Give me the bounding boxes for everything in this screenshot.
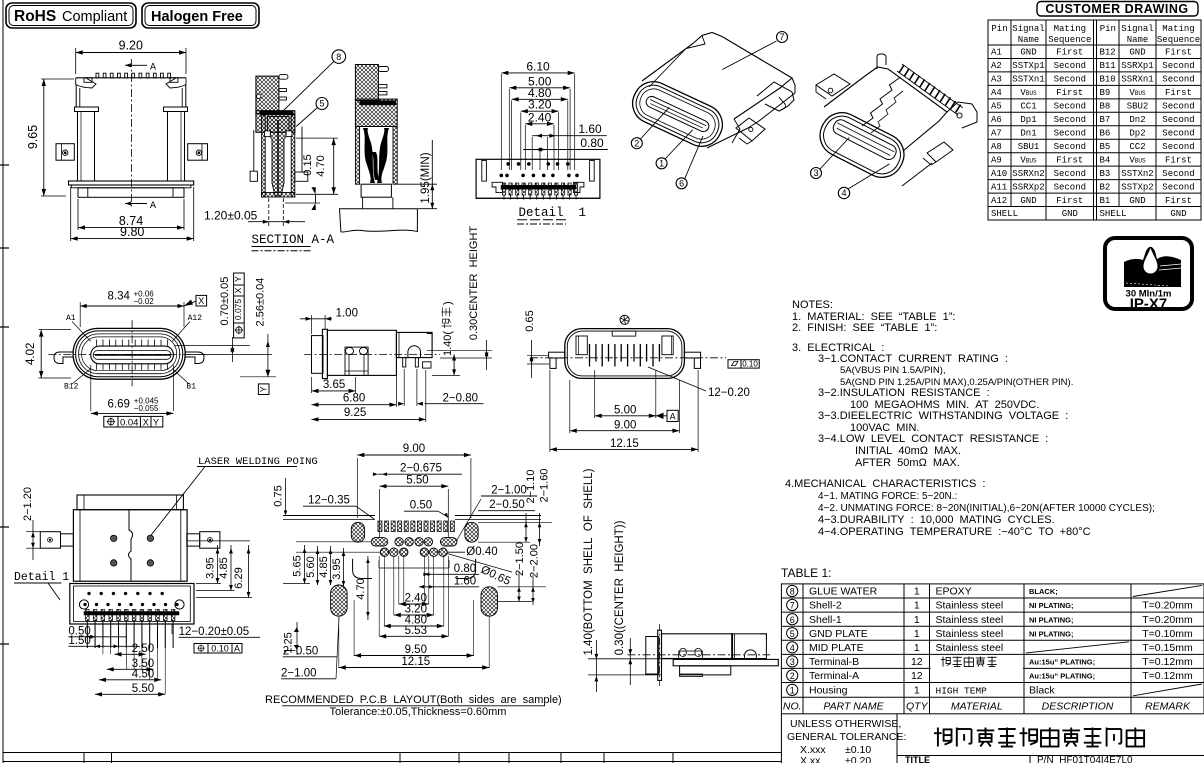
- svg-text:A6: A6: [991, 115, 1002, 125]
- svg-text:2−0.80: 2−0.80: [443, 393, 479, 405]
- svg-text:NI PLATING;: NI PLATING;: [1029, 601, 1073, 610]
- svg-text:4.50: 4.50: [132, 668, 154, 680]
- svg-text:4.02: 4.02: [25, 343, 37, 365]
- iso view 2: top tab: [877, 54, 886, 69]
- svg-text:2−1.00: 2−1.00: [491, 484, 527, 496]
- svg-text:SSRXp2: SSRXp2: [1012, 182, 1044, 192]
- iso view 1: solder lug: [736, 118, 765, 141]
- TABLE 1 parts list: [781, 566, 1204, 714]
- svg-text:5: 5: [319, 99, 324, 109]
- sheet left border line: [2, 0, 4, 763]
- svg-text:A4: A4: [991, 88, 1002, 98]
- svg-text:12: 12: [911, 656, 923, 668]
- svg-text:SSRXn2: SSRXn2: [1012, 169, 1044, 179]
- iso view 2: right rear latch: [947, 102, 977, 128]
- IP-X7 badge frame: [1105, 238, 1192, 309]
- svg-text:1.40(BOTTOM SHELL OF SHELL): 1.40(BOTTOM SHELL OF SHELL): [583, 468, 595, 655]
- svg-text:0.70±0.05: 0.70±0.05: [219, 277, 231, 326]
- mounted view: flange vertical center line: [659, 624, 661, 686]
- svg-text:2−1.50: 2−1.50: [514, 542, 526, 576]
- bottom view: detail end circles: [79, 600, 88, 609]
- section A-A: right mid block: [355, 99, 397, 126]
- svg-text:2−2.00: 2−2.00: [529, 544, 541, 578]
- svg-text:2: 2: [634, 138, 639, 148]
- sheet bottom border line: [3, 752, 781, 754]
- svg-text:3.95: 3.95: [205, 557, 217, 578]
- svg-text:Terminal-B: Terminal-B: [809, 656, 859, 668]
- svg-text:RoHS: RoHS: [14, 8, 56, 25]
- front view: dim 9.20: [76, 52, 186, 54]
- front view: left lug: [56, 144, 74, 161]
- svg-text:12.15: 12.15: [401, 656, 430, 668]
- svg-text:MID PLATE: MID PLATE: [809, 642, 864, 654]
- svg-text:A: A: [150, 201, 156, 212]
- svg-text:9.25: 9.25: [344, 407, 366, 419]
- svg-text:3−4.LOW LEVEL CONTACT RESIS: 3−4.LOW LEVEL CONTACT RESISTANCE :: [818, 433, 1048, 445]
- svg-text:3.65: 3.65: [323, 379, 345, 391]
- svg-text:−0.02: −0.02: [134, 297, 155, 306]
- svg-text:A10: A10: [991, 169, 1007, 179]
- svg-text:Name: Name: [1127, 35, 1149, 45]
- svg-text:Second: Second: [1162, 182, 1194, 192]
- svg-text:Y: Y: [233, 276, 243, 282]
- svg-text:Second: Second: [1162, 142, 1194, 152]
- detail1: bottom edge: [476, 197, 600, 199]
- svg-text:1: 1: [914, 600, 920, 612]
- svg-text:X: X: [198, 296, 204, 306]
- svg-text:3−3.DIEELECTRIC WITHSTANDING: 3−3.DIEELECTRIC WITHSTANDING VOLTAGE :: [818, 410, 1068, 422]
- bottom view: detail dots row1: [88, 592, 91, 595]
- detail1: contact band and pins: [501, 185, 576, 189]
- svg-text:GND PLATE: GND PLATE: [809, 628, 868, 640]
- mounted view: lower housing below board: [680, 666, 731, 675]
- front view: top corner hooks: [76, 78, 96, 88]
- svg-text:B8: B8: [1100, 102, 1111, 112]
- detail1: upper dots: [507, 162, 510, 165]
- mounted view: board top reference line: [588, 658, 673, 660]
- svg-text:B2: B2: [1100, 182, 1111, 192]
- iso view 2: pins row: [897, 71, 958, 115]
- rear view: datum A flag: [656, 415, 667, 417]
- iso view 1: rear latch with notch: [757, 82, 794, 111]
- svg-text:Second: Second: [1054, 169, 1086, 179]
- svg-text:AFTER 50mΩ MAX.: AFTER 50mΩ MAX.: [855, 457, 960, 469]
- front view: section arrow A bottom: [125, 203, 147, 205]
- balloon 7: [777, 32, 788, 43]
- svg-text:8.34: 8.34: [108, 291, 131, 303]
- svg-text:Second: Second: [1162, 75, 1194, 85]
- svg-text:A2: A2: [991, 61, 1002, 71]
- svg-text:5.65: 5.65: [292, 555, 304, 576]
- svg-text:5.53: 5.53: [405, 625, 427, 637]
- svg-text:B1: B1: [186, 383, 196, 392]
- svg-text:8: 8: [790, 587, 795, 597]
- side view: spring clip detail: [345, 347, 368, 375]
- svg-text:Second: Second: [1162, 115, 1194, 125]
- detail1: end caps: [492, 182, 502, 192]
- company name glyphs: [934, 728, 1144, 747]
- svg-text:B12: B12: [64, 383, 79, 392]
- svg-text:DESCRIPTION: DESCRIPTION: [1042, 700, 1114, 712]
- front view: dim 9.65: [43, 79, 45, 196]
- RoHS Compliant badge: [6, 3, 136, 28]
- svg-text:6: 6: [679, 179, 684, 189]
- svg-text:A3: A3: [991, 75, 1002, 85]
- svg-text:TITLE: TITLE: [905, 755, 930, 763]
- svg-text:4−3.DURABILITY : 10,000 MAT: 4−3.DURABILITY : 10,000 MATING CYCLES.: [818, 514, 1055, 526]
- svg-text:B7: B7: [1100, 115, 1111, 125]
- front view: bottom housing: [78, 188, 184, 198]
- svg-text:P/N HF01T04I4E7L0: P/N HF01T04I4E7L0: [1037, 755, 1133, 763]
- detail1: body outline: [476, 159, 600, 198]
- face view: side hooks: [54, 352, 73, 364]
- svg-text:SBU1: SBU1: [1018, 142, 1040, 152]
- svg-text:0.10: 0.10: [211, 644, 229, 654]
- bottom view: mid seam: [129, 510, 133, 581]
- pin assignment table: [988, 20, 1201, 220]
- svg-text:Stainless steel: Stainless steel: [936, 642, 1004, 654]
- svg-text:Housing: Housing: [809, 685, 848, 697]
- svg-text:GND: GND: [1020, 196, 1036, 206]
- svg-text:First: First: [1056, 196, 1083, 206]
- svg-text:A1: A1: [991, 48, 1002, 58]
- iso view 2: mid plate zigzag seam: [862, 77, 901, 126]
- svg-text:4: 4: [841, 188, 846, 198]
- svg-text:0.30((CENTER HEIGHT)): 0.30((CENTER HEIGHT)): [614, 520, 626, 655]
- svg-text:Stainless steel: Stainless steel: [936, 600, 1004, 612]
- svg-text:1.95(MIN): 1.95(MIN): [420, 152, 432, 203]
- pcb: row3 pads: [380, 548, 388, 556]
- notes text block: [785, 299, 1155, 538]
- svg-text:SECTION A-A: SECTION A-A: [252, 233, 335, 247]
- svg-text:Sequence: Sequence: [1048, 35, 1091, 45]
- face view: datum X flag: [184, 301, 196, 306]
- Halogen Free badge: [142, 3, 259, 28]
- svg-text:1: 1: [914, 685, 920, 697]
- svg-text:MATERIAL: MATERIAL: [951, 700, 1003, 712]
- bottom view: weld dots: [111, 535, 117, 541]
- svg-text:SSTXp1: SSTXp1: [1012, 61, 1044, 71]
- side view: rear legs: [403, 358, 406, 367]
- svg-text:Shell-2: Shell-2: [809, 600, 842, 612]
- svg-text:CC1: CC1: [1020, 102, 1036, 112]
- svg-text:TABLE 1:: TABLE 1:: [781, 566, 831, 580]
- svg-text:NOTES:: NOTES:: [792, 299, 833, 311]
- svg-text:REMARK: REMARK: [1145, 700, 1191, 712]
- svg-text:1.00: 1.00: [336, 308, 358, 320]
- bottom view: contact band and pins: [84, 612, 179, 616]
- rear view: weld symbol: [620, 315, 629, 324]
- svg-text:QTY: QTY: [906, 700, 929, 712]
- balloon 1: [656, 158, 667, 169]
- svg-text:UNLESS OTHERWISE,: UNLESS OTHERWISE,: [790, 718, 901, 730]
- svg-text:Detail 1: Detail 1: [519, 206, 587, 220]
- face view: body stadiums: [73, 328, 185, 379]
- iso view 2: front stadium: [813, 105, 911, 184]
- svg-text:Second: Second: [1162, 102, 1194, 112]
- svg-text:Halogen Free: Halogen Free: [151, 9, 243, 25]
- svg-text:Au:15u” PLATING;: Au:15u” PLATING;: [1029, 658, 1095, 667]
- svg-text:0.80: 0.80: [454, 563, 476, 575]
- section A-A: contact windows: [265, 131, 271, 137]
- rear view: inner blocks: [576, 336, 587, 355]
- svg-text:6.10: 6.10: [526, 59, 550, 73]
- detail1: extension lines: [500, 74, 502, 170]
- side view: front cap: [312, 336, 324, 374]
- svg-text:IP-X7: IP-X7: [1130, 296, 1168, 313]
- svg-text:2−1.60: 2−1.60: [539, 469, 551, 503]
- svg-text:VBUS: VBUS: [1129, 155, 1146, 165]
- svg-text:Stainless steel: Stainless steel: [936, 614, 1004, 626]
- svg-text:8: 8: [336, 52, 341, 62]
- front view: dim 9.80: [71, 238, 194, 240]
- section A-A: left shell walls: [262, 115, 266, 197]
- svg-text:Signal: Signal: [1121, 24, 1153, 34]
- svg-text:2. FINISH: SEE “TABLE 1”:: 2. FINISH: SEE “TABLE 1”:: [792, 322, 937, 334]
- svg-text:0.65: 0.65: [524, 310, 536, 331]
- front view: wall caps: [75, 107, 99, 112]
- revision strip ticks: [3, 753, 781, 763]
- svg-text:2.40: 2.40: [528, 110, 552, 124]
- svg-text:0.50: 0.50: [410, 500, 432, 512]
- svg-text:SSTXn1: SSTXn1: [1012, 75, 1044, 85]
- svg-text:A12: A12: [991, 196, 1007, 206]
- svg-text:Shell-1: Shell-1: [809, 614, 842, 626]
- title block: [781, 714, 1204, 763]
- pcb: shell edge lines: [283, 515, 375, 517]
- pcb: housing outline bottom: [353, 559, 372, 579]
- svg-text:4−1. MATING FORCE: 5~20N.:: 4−1. MATING FORCE: 5~20N.:: [818, 491, 957, 502]
- svg-text:A1: A1: [66, 314, 76, 323]
- svg-text:0.04: 0.04: [120, 417, 139, 428]
- svg-text:Dp1: Dp1: [1020, 115, 1036, 125]
- svg-text:B5: B5: [1100, 142, 1111, 152]
- section A-A: right shoulder leg: [301, 127, 303, 173]
- side view: front flange: [322, 329, 327, 378]
- balloon 2: [631, 138, 642, 149]
- svg-text:B10: B10: [1100, 75, 1116, 85]
- svg-text:4.MECHANICAL CHARACTERISTICS: 4.MECHANICAL CHARACTERISTICS :: [785, 478, 985, 490]
- svg-text:A: A: [670, 411, 676, 421]
- svg-text:3.95: 3.95: [331, 558, 343, 579]
- svg-text:T=0.15mm: T=0.15mm: [1142, 642, 1193, 654]
- svg-text:B11: B11: [1100, 61, 1116, 71]
- svg-text:First: First: [1165, 196, 1192, 206]
- iso view 1: front stadium: [626, 75, 729, 153]
- svg-text:SHELL: SHELL: [991, 209, 1018, 219]
- svg-text:Second: Second: [1054, 61, 1086, 71]
- svg-text:12−0.20±0.05: 12−0.20±0.05: [179, 626, 250, 638]
- face view: dim 4.02: [40, 330, 42, 378]
- iso view 2: left lug: [816, 74, 850, 96]
- svg-text:2−0.50: 2−0.50: [283, 645, 319, 657]
- balloon 4: [838, 187, 849, 198]
- svg-text:Black: Black: [1029, 685, 1055, 697]
- pcb: row2 pads: [371, 538, 388, 546]
- detail1: dim 6.10: [501, 72, 574, 74]
- svg-text:Second: Second: [1054, 102, 1086, 112]
- svg-text:B6: B6: [1100, 129, 1111, 139]
- svg-text:GND: GND: [1129, 196, 1145, 206]
- front view: section arrow A top: [137, 64, 147, 66]
- svg-text:GND: GND: [1170, 209, 1186, 219]
- section A-A: contacts inside: [363, 128, 375, 183]
- pcb: bottom big oval pads: [331, 585, 348, 616]
- mounted view: front cap: [646, 637, 659, 675]
- svg-text:0.10: 0.10: [742, 360, 758, 369]
- section A-A: left outside leg: [253, 130, 255, 171]
- svg-text:Second: Second: [1162, 61, 1194, 71]
- face view: position frame 0.04: [104, 416, 163, 427]
- bottom view: pin tail extension lines: [86, 624, 88, 637]
- svg-text:6.29: 6.29: [233, 567, 245, 588]
- section A-A: left mid block with glue band: [256, 111, 295, 133]
- front view: left column: [78, 112, 95, 182]
- svg-text:HIGH TEMP: HIGH TEMP: [936, 686, 988, 697]
- svg-text:3−2.INSULATION RESISTANCE :: 3−2.INSULATION RESISTANCE :: [818, 387, 990, 399]
- svg-text:9.50: 9.50: [405, 644, 427, 656]
- section A-A: plug box below: [361, 184, 391, 197]
- svg-text:Dp2: Dp2: [1129, 129, 1145, 139]
- rear view: left leg: [549, 352, 565, 358]
- svg-text:B9: B9: [1100, 88, 1111, 98]
- svg-text:1: 1: [914, 586, 920, 598]
- detail1: dim 5.00: [509, 87, 570, 89]
- svg-text:INITIAL 40mΩ MAX.: INITIAL 40mΩ MAX.: [855, 445, 961, 457]
- svg-text:Sequence: Sequence: [1157, 35, 1200, 45]
- svg-text:3−1.CONTACT CURRENT RATING: 3−1.CONTACT CURRENT RATING :: [818, 353, 1008, 365]
- svg-text:EPOXY: EPOXY: [936, 586, 972, 598]
- svg-text:Pin: Pin: [1100, 24, 1116, 34]
- side view: main body: [327, 330, 396, 375]
- svg-text:12−0.20: 12−0.20: [708, 387, 750, 399]
- iso view 2: top face: [824, 67, 947, 151]
- svg-text:1: 1: [790, 686, 795, 696]
- svg-text:Signal: Signal: [1012, 24, 1044, 34]
- mounted view: dim 0.30 arrows: [629, 638, 631, 685]
- svg-text:Pin: Pin: [991, 24, 1007, 34]
- svg-text:2: 2: [790, 671, 795, 681]
- sheet border tick marks: [0, 164, 9, 166]
- svg-text:Terminal-A: Terminal-A: [809, 670, 859, 682]
- svg-text:Au:15u” PLATING;: Au:15u” PLATING;: [1029, 672, 1095, 681]
- svg-text:GLUE WATER: GLUE WATER: [809, 586, 878, 598]
- svg-text:A: A: [150, 63, 156, 74]
- mounted view: rear housing: [732, 634, 767, 659]
- svg-text:9.65: 9.65: [26, 125, 40, 149]
- svg-text:T=0.12mm: T=0.12mm: [1142, 656, 1193, 668]
- detail1: lower dots: [500, 174, 503, 177]
- svg-text:Compliant: Compliant: [62, 9, 127, 25]
- face view: center lines: [131, 320, 133, 386]
- svg-text:First: First: [1165, 48, 1192, 58]
- detail1: dim 2.40: [525, 123, 554, 125]
- svg-text:First: First: [1165, 155, 1192, 165]
- mounted view: dim 1.40 arrows: [595, 640, 597, 692]
- bottom view: front shell bottom (detail): [70, 584, 194, 625]
- svg-text:Mating: Mating: [1054, 24, 1086, 34]
- section A-A: dim 4.70: [296, 137, 338, 139]
- bottom view: detail dots row2: [84, 603, 87, 606]
- svg-text:0.75: 0.75: [273, 485, 285, 506]
- svg-text:4.70: 4.70: [355, 578, 367, 599]
- svg-text:Second: Second: [1162, 169, 1194, 179]
- svg-text:9.20: 9.20: [119, 39, 143, 53]
- bottom view: main body: [73, 510, 187, 582]
- balloon 5: [316, 98, 328, 110]
- svg-text:9.00: 9.00: [614, 419, 636, 431]
- svg-text:9.80: 9.80: [120, 225, 144, 239]
- svg-text:6: 6: [790, 615, 795, 625]
- rear view: right leg: [684, 352, 700, 358]
- svg-text:0.80: 0.80: [580, 136, 604, 150]
- svg-text:T=0.10mm: T=0.10mm: [1142, 628, 1193, 640]
- balloon 8: [332, 50, 346, 64]
- svg-text:4−4.OPERATING TEMPERATURE :−: 4−4.OPERATING TEMPERATURE :−40°C TO +80°…: [818, 526, 1091, 538]
- section A-A: left section pins: [279, 75, 288, 80]
- svg-text:1.60: 1.60: [578, 122, 602, 136]
- front view: right lug: [188, 144, 208, 161]
- face view: contacts ticks: [96, 340, 98, 346]
- svg-text:2−0.675: 2−0.675: [400, 463, 442, 475]
- svg-text:2.56±0.04: 2.56±0.04: [255, 278, 267, 327]
- svg-text:SHELL: SHELL: [1100, 209, 1127, 219]
- svg-text:4.85: 4.85: [218, 557, 230, 578]
- svg-text:T=0.12mm: T=0.12mm: [1142, 670, 1193, 682]
- svg-text:4.70: 4.70: [315, 155, 327, 176]
- svg-text:A11: A11: [991, 182, 1007, 192]
- svg-text:3: 3: [813, 168, 818, 178]
- svg-text:5.00: 5.00: [614, 405, 636, 417]
- face view: rotated frame 0.075: [234, 273, 245, 338]
- detail1: dim 0.80: [523, 149, 608, 151]
- svg-text:T=0.20mm: T=0.20mm: [1142, 614, 1193, 626]
- svg-text:Second: Second: [1054, 115, 1086, 125]
- svg-text:Second: Second: [1054, 182, 1086, 192]
- svg-text:2−0.50: 2−0.50: [489, 499, 525, 511]
- svg-text:2−1.20: 2−1.20: [22, 487, 34, 521]
- svg-text:1.40(: 1.40(: [442, 331, 454, 356]
- IP-X7 water block: [1124, 247, 1181, 287]
- svg-text:4−2. UNMATING FORCE: 8~20N(INI: 4−2. UNMATING FORCE: 8~20N(INITIAL),6~20…: [818, 503, 1155, 514]
- svg-text:A9: A9: [991, 155, 1002, 165]
- svg-text:B3: B3: [1100, 169, 1111, 179]
- IP-X7 badge: [1105, 238, 1192, 313]
- pcb: extension fan: [384, 556, 386, 626]
- section A-A: left section top block: [256, 76, 279, 114]
- balloon 3: [811, 168, 822, 179]
- iso view 1: top face: [642, 33, 792, 120]
- svg-text:A5: A5: [991, 102, 1002, 112]
- CUSTOMER DRAWING badge: [1037, 2, 1198, 17]
- svg-text:0.30CENTER HEIGHT: 0.30CENTER HEIGHT: [468, 226, 480, 341]
- balloon 6: [676, 178, 687, 189]
- svg-text:±0.20: ±0.20: [845, 755, 871, 763]
- face view: right extension and arrows: [175, 345, 250, 347]
- side view: dim 1.40 sunk board: [442, 301, 455, 356]
- mounted view: body: [662, 634, 733, 659]
- svg-text:B4: B4: [1100, 155, 1111, 165]
- svg-text:6.69: 6.69: [108, 398, 130, 410]
- mounted view: pcb board slab: [673, 659, 778, 665]
- svg-text:GENERAL TOLERANCE:: GENERAL TOLERANCE:: [787, 731, 906, 743]
- svg-text:2−1.00: 2−1.00: [281, 667, 317, 679]
- pcb: side stadium pads: [351, 522, 364, 542]
- mounted view: spring clips: [679, 651, 703, 659]
- svg-text:VBUS: VBUS: [1020, 155, 1037, 165]
- side view: rear foot: [423, 362, 431, 368]
- svg-text:1.20±0.05: 1.20±0.05: [204, 209, 258, 223]
